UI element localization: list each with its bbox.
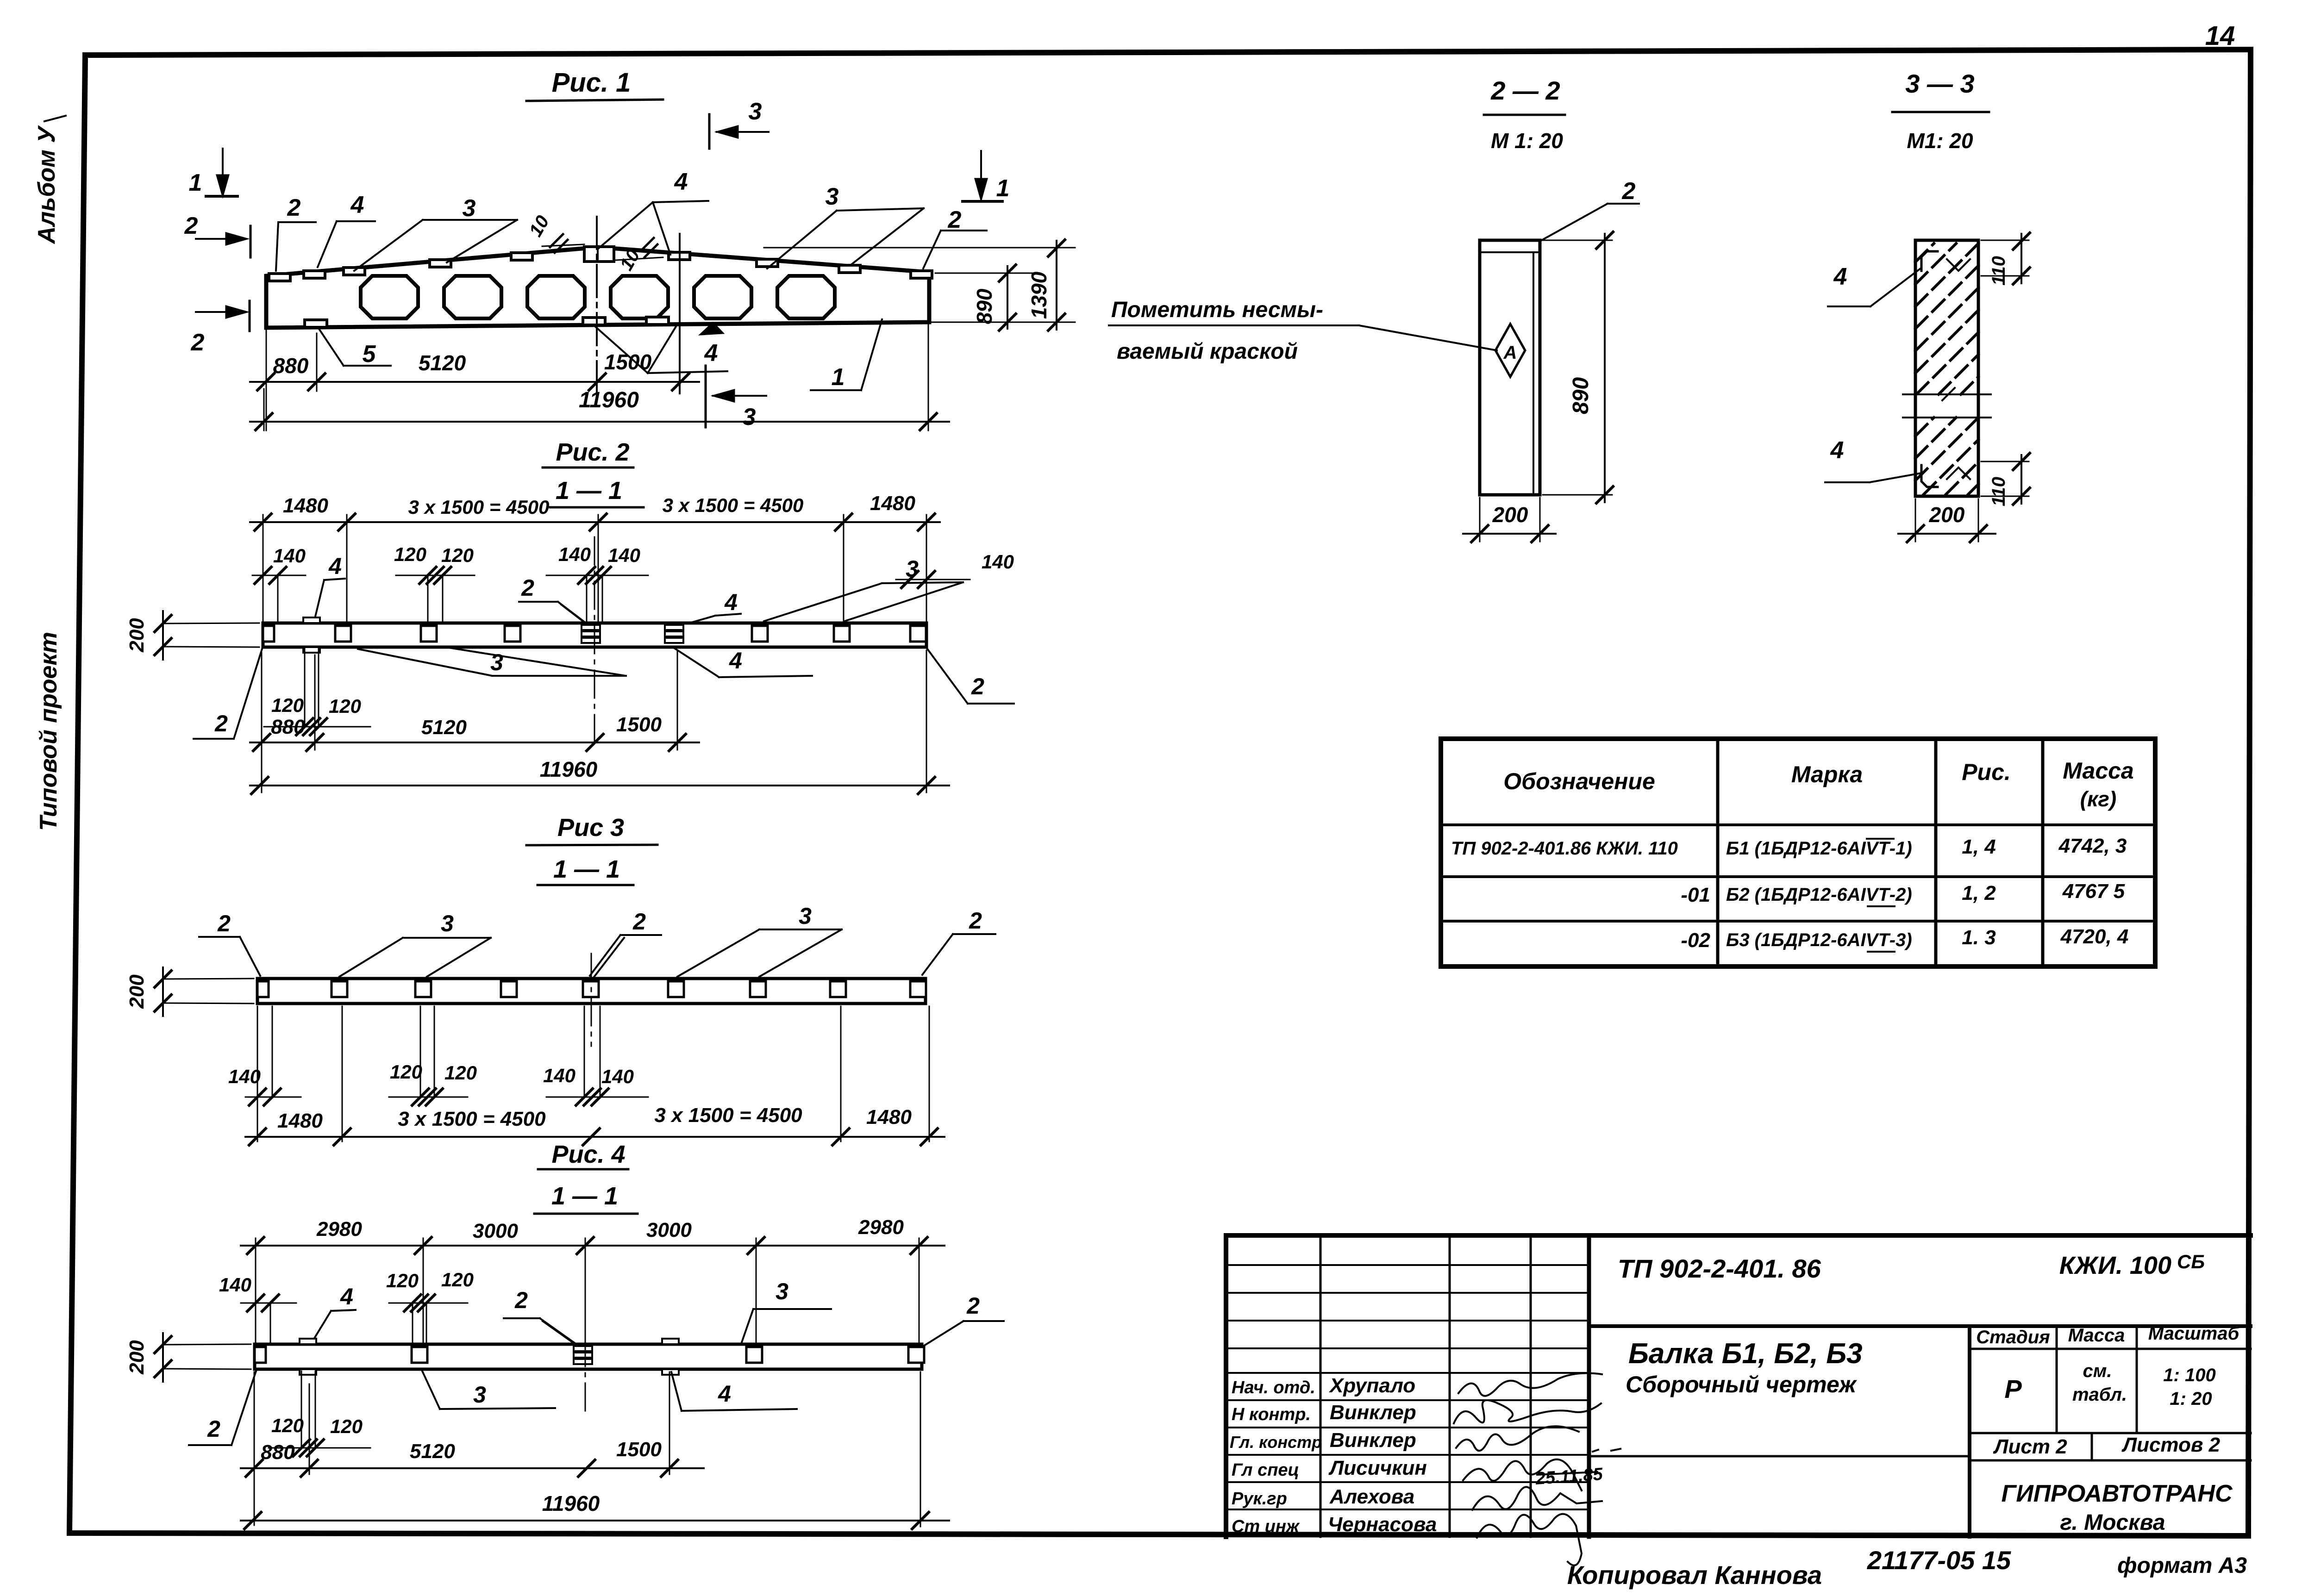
svg-text:-01: -01 — [1681, 884, 1710, 906]
svg-text:4: 4 — [1830, 437, 1844, 464]
Рис.1 top plate 5 — [511, 253, 532, 260]
Рис.2 splice stack right — [665, 625, 683, 643]
Рис.3 dim 200 left — [125, 967, 254, 1016]
svg-text:21177-05 15: 21177-05 15 — [1867, 1546, 2011, 1575]
svg-text:4: 4 — [674, 168, 688, 195]
svg-text:1: 1 — [832, 364, 845, 391]
svg-text:200: 200 — [125, 1340, 148, 1375]
Рис.4 centreline — [585, 1250, 586, 1412]
svg-text:СБ: СБ — [2177, 1251, 2205, 1272]
Рис.2 end plate right — [910, 626, 926, 642]
svg-text:200: 200 — [1492, 503, 1528, 527]
Рис.1 section mark 2 upper-left — [184, 212, 250, 257]
svg-text:3 x 1500 = 4500: 3 x 1500 = 4500 — [408, 496, 550, 518]
Рис.1 title — [526, 68, 663, 101]
Рис.1 top plate 9 — [911, 271, 932, 278]
svg-text:140: 140 — [273, 545, 306, 567]
svg-text:Гл. констр: Гл. констр — [1230, 1433, 1322, 1452]
Рис.3 plate 1 — [332, 981, 347, 997]
Рис.1 beam outline — [266, 247, 929, 328]
Рис.1 centreline — [596, 217, 598, 393]
Рис.1 leader 3 parallelogram left — [354, 195, 517, 271]
Рис.4 dim 880-5120-1500 — [241, 1372, 704, 1525]
svg-text:2: 2 — [966, 1293, 980, 1319]
Рис.1 top plate 2 — [304, 271, 325, 278]
svg-text:Пометить несмы-: Пометить несмы- — [1111, 298, 1323, 322]
Рис.1 hole 3 — [527, 276, 585, 318]
signatures — [1454, 1373, 1602, 1565]
svg-text:1: 1 — [189, 169, 202, 196]
Рис.4 leader 2 bottom-left — [189, 1371, 256, 1445]
Рис.1 leader 4 top-left — [318, 192, 375, 267]
svg-text:200: 200 — [125, 974, 148, 1009]
svg-text:120: 120 — [271, 1415, 304, 1436]
svg-text:1, 2: 1, 2 — [1962, 882, 1996, 904]
table header Масса кг — [2063, 758, 2134, 811]
svg-text:140: 140 — [543, 1065, 575, 1086]
section 3-3 leader 4 bottom — [1825, 437, 1921, 482]
section 2-2 leader 2 — [1540, 178, 1639, 241]
svg-text:3 x 1500 = 4500: 3 x 1500 = 4500 — [654, 1104, 802, 1127]
svg-text:Рис. 1: Рис. 1 — [552, 68, 631, 98]
svg-text:140: 140 — [228, 1066, 261, 1087]
svg-text:120: 120 — [330, 1415, 363, 1437]
svg-text:2: 2 — [287, 194, 301, 221]
svg-text:Лисичкин: Лисичкин — [1328, 1457, 1427, 1479]
svg-text:ГИПРОАВТОТРАНС: ГИПРОАВТОТРАНС — [2001, 1480, 2233, 1507]
Рис.3 plate 3 — [501, 981, 517, 997]
svg-text:М 1: 20: М 1: 20 — [1491, 129, 1563, 153]
svg-text:3 x 1500 = 4500: 3 x 1500 = 4500 — [663, 494, 804, 516]
Рис.4 plate pair item4 right — [662, 1339, 679, 1375]
section 3-3 body with hatching — [1915, 240, 1978, 496]
Рис.2 plate 5 — [834, 626, 850, 642]
svg-text:2: 2 — [521, 575, 534, 601]
Рис.4 small dim 140 left — [219, 1274, 296, 1344]
Рис.4 title — [534, 1141, 638, 1214]
svg-text:3: 3 — [826, 183, 839, 210]
Рис.1 dim 11960 — [250, 324, 949, 430]
svg-text:3: 3 — [490, 649, 503, 675]
section 3-3 anchor loop bottom — [1921, 465, 1970, 487]
svg-text:Обозначение: Обозначение — [1503, 768, 1655, 794]
svg-text:5: 5 — [363, 341, 376, 368]
title block sheet row — [1970, 1433, 2251, 1460]
svg-text:120: 120 — [441, 544, 474, 566]
Рис.2 leader 2 bottom-left — [194, 649, 262, 739]
Рис.3 dim 1480-4500-4500-1480 — [245, 1006, 945, 1145]
Рис.2 small dim 120-120 upper — [394, 543, 475, 623]
Рис.1 apex plate — [584, 247, 614, 262]
svg-text:1480: 1480 — [283, 494, 328, 517]
svg-text:Ст инж: Ст инж — [1232, 1517, 1300, 1536]
svg-text:Рис 3: Рис 3 — [557, 814, 624, 842]
svg-text:4742, 3: 4742, 3 — [2058, 835, 2127, 857]
svg-text:2: 2 — [214, 711, 228, 736]
svg-text:М1: 20: М1: 20 — [1907, 129, 1973, 153]
section 2-2 body — [1480, 240, 1540, 495]
title block staff grid — [1226, 1235, 1589, 1537]
Рис.1 extension line 1500 right — [679, 234, 681, 393]
svg-text:Рис.: Рис. — [1962, 759, 2011, 785]
Рис.3 small dim 140 left — [228, 1006, 301, 1141]
Рис.1 top plate 6 — [669, 252, 690, 260]
svg-text:1. 3: 1. 3 — [1962, 926, 1995, 949]
svg-text:140: 140 — [219, 1274, 251, 1296]
Рис.1 top plate 3 — [344, 268, 365, 275]
Рис.1 leader 4 bottom-middle — [595, 325, 727, 373]
svg-text:890: 890 — [972, 288, 996, 324]
svg-text:120: 120 — [386, 1270, 419, 1291]
Рис.4 leader 4 upper — [313, 1284, 356, 1340]
svg-text:формат А3: формат А3 — [2117, 1553, 2247, 1578]
svg-text:120: 120 — [394, 543, 426, 565]
svg-text:2: 2 — [184, 212, 198, 239]
svg-text:120: 120 — [444, 1062, 477, 1084]
Рис.4 small dim 120-120 upper — [386, 1269, 474, 1344]
svg-text:4: 4 — [340, 1284, 353, 1309]
Рис.2 small dim 120-120 lower — [264, 648, 370, 735]
svg-text:880: 880 — [273, 354, 309, 378]
svg-text:3: 3 — [776, 1278, 788, 1304]
svg-text:ТП 902-2-401.86 КЖИ. 110: ТП 902-2-401.86 КЖИ. 110 — [1451, 838, 1678, 859]
Рис.4 dim 2980-3000-3000-2980 — [241, 1216, 945, 1344]
svg-text:200: 200 — [125, 618, 148, 653]
svg-text:Листов 2: Листов 2 — [2121, 1434, 2221, 1456]
Рис.2 dim 880-5120-1500 — [250, 650, 699, 792]
Рис.2 leader 2 bottom-right — [927, 649, 1014, 704]
Рис.1 hole 6 — [777, 276, 835, 318]
title block code row — [1589, 1251, 2251, 1326]
section 3-3 title — [1892, 69, 1989, 153]
svg-text:3: 3 — [743, 404, 756, 430]
svg-text:1480: 1480 — [866, 1106, 912, 1128]
svg-text:Винклер: Винклер — [1330, 1401, 1416, 1424]
svg-text:Б3 (1БДР12-6АIVТ-3): Б3 (1БДР12-6АIVТ-3) — [1726, 930, 1912, 950]
svg-text:ваемый краской: ваемый краской — [1117, 339, 1298, 364]
Рис.2 small dim 140 left — [252, 545, 306, 623]
Рис.2 splice stack left — [582, 625, 600, 643]
section 3-3 leader 4 top — [1828, 263, 1920, 306]
Рис.3 leader 2 right — [922, 908, 995, 975]
Рис.4 leader 3 upper — [742, 1278, 831, 1342]
Рис.3 small dim 140-140 — [543, 1006, 648, 1105]
svg-text:4: 4 — [328, 553, 342, 579]
Рис.2 dim 1480-4500-4500-1480 — [250, 492, 940, 623]
Рис.1 leader 2 top-right — [923, 206, 987, 268]
Рис.1 top plate 1 — [269, 274, 290, 281]
svg-text:11960: 11960 — [540, 757, 598, 781]
Рис.2 leader 3 parallelogram lower — [358, 648, 626, 676]
svg-text:5120: 5120 — [419, 351, 466, 375]
Рис.1 section mark 1 right — [963, 151, 1009, 202]
svg-text:1500: 1500 — [616, 1438, 662, 1461]
Рис.1 section mark 3 top — [709, 98, 769, 149]
Рис.4 dim 11960 — [241, 1372, 949, 1529]
Рис.3 leader 3 parallelogram right — [677, 903, 842, 977]
svg-text:2: 2 — [969, 908, 982, 934]
Рис.3 end plate left — [257, 981, 269, 997]
section 2-2 title — [1484, 76, 1565, 153]
Рис.1 weld mark triangle — [700, 323, 723, 335]
svg-text:3: 3 — [749, 98, 762, 125]
Рис.1 top plate 7 — [757, 259, 778, 267]
svg-text:200: 200 — [1929, 503, 1965, 527]
svg-text:Хрупало: Хрупало — [1328, 1374, 1415, 1397]
Рис.1 leader 1 bottom-right — [811, 319, 882, 391]
svg-text:Н контр.: Н контр. — [1232, 1405, 1311, 1424]
svg-text:2 — 2: 2 — 2 — [1490, 76, 1560, 105]
specification table — [1441, 739, 2155, 966]
section 3-3 dim 110 bottom — [1981, 453, 2030, 506]
Рис.4 leader 3 lower — [422, 1371, 555, 1409]
Рис.1 hole 5 — [694, 276, 751, 318]
svg-text:2: 2 — [217, 910, 231, 936]
Рис.1 leader 5 bottom-left — [319, 330, 391, 368]
title block staff names — [1230, 1374, 1437, 1536]
svg-text:Алехова: Алехова — [1329, 1485, 1414, 1508]
Рис.2 leader 4 lower — [674, 648, 812, 677]
svg-text:4: 4 — [704, 340, 718, 367]
svg-text:120: 120 — [441, 1269, 474, 1291]
Рис.4 splice stack — [574, 1346, 592, 1364]
svg-text:890: 890 — [1569, 377, 1593, 414]
Рис.1 section mark 2 lower-left — [191, 301, 250, 356]
page number 14 — [2205, 21, 2235, 51]
svg-text:2980: 2980 — [316, 1218, 362, 1241]
svg-text:Типовой проект: Типовой проект — [35, 632, 62, 831]
svg-text:Масштаб: Масштаб — [2148, 1323, 2240, 1344]
svg-text:КЖИ. 100: КЖИ. 100 — [2059, 1252, 2171, 1279]
svg-text:3 — 3: 3 — 3 — [1905, 69, 1974, 98]
svg-text:3: 3 — [473, 1382, 486, 1408]
svg-text:Копировал Каннова: Копировал Каннова — [1567, 1560, 1822, 1590]
section 2-2 dim 200 — [1463, 498, 1556, 542]
title block organization — [2001, 1480, 2233, 1535]
Рис.2 small dim 140 right — [896, 551, 1014, 623]
Рис.2 end plate left — [263, 626, 274, 642]
svg-text:2: 2 — [971, 673, 984, 699]
Рис.4 leader 2 upper — [504, 1287, 584, 1351]
table row2 — [1681, 880, 2125, 906]
svg-text:1 — 1: 1 — 1 — [556, 477, 622, 505]
table row1 — [1451, 835, 2127, 859]
Рис.1 leader 2 top-left — [276, 194, 316, 271]
svg-text:А: А — [1503, 343, 1517, 363]
Рис.1 section mark 3 bottom — [706, 366, 766, 430]
Рис.1 section mark 1 left — [189, 149, 238, 196]
Рис.2 plate 2 — [421, 626, 437, 642]
margin text Альбом V — [33, 116, 66, 244]
title block name Балка — [1589, 1338, 1970, 1456]
svg-text:4767 5: 4767 5 — [2062, 880, 2125, 903]
section 3-3 break lines — [1903, 388, 1991, 418]
table row3 — [1681, 925, 2128, 952]
Рис.1 leader 3 parallelogram right — [767, 183, 924, 268]
svg-text:Стадия: Стадия — [1976, 1327, 2050, 1347]
svg-text:3000: 3000 — [646, 1219, 692, 1241]
Рис.3 leader 3 parallelogram left — [339, 910, 491, 977]
svg-text:110: 110 — [1989, 477, 2009, 506]
svg-text:880: 880 — [261, 1441, 295, 1464]
svg-text:3000: 3000 — [473, 1220, 518, 1242]
svg-text:4: 4 — [729, 648, 742, 673]
svg-text:1: 1 — [996, 175, 1010, 202]
svg-text:1 — 1: 1 — 1 — [551, 1182, 618, 1210]
Рис.3 plate 2 — [415, 981, 431, 997]
svg-text:140: 140 — [601, 1066, 634, 1087]
svg-text:1, 4: 1, 4 — [1962, 835, 1995, 858]
svg-text:4: 4 — [350, 192, 364, 218]
svg-text:Масса: Масса — [2068, 1325, 2125, 1346]
Рис.4 dim 200 left — [125, 1333, 251, 1382]
svg-text:Балка Б1, Б2, Б3: Балка Б1, Б2, Б3 — [1628, 1338, 1863, 1370]
Рис.1 hole 4 — [611, 276, 668, 318]
note пометить несмываемой краской — [1109, 298, 1497, 364]
svg-text:см.: см. — [2083, 1361, 2112, 1381]
Рис.1 top plate 8 — [839, 265, 860, 273]
title block outline — [1226, 1235, 2251, 1537]
svg-text:Масса: Масса — [2063, 758, 2134, 784]
Рис.3 end plate right — [910, 981, 926, 997]
svg-text:2: 2 — [948, 206, 962, 233]
svg-text:г. Москва: г. Москва — [2060, 1510, 2165, 1535]
svg-text:Рис. 4: Рис. 4 — [551, 1141, 625, 1168]
Рис.1 leader 4 apex — [598, 168, 708, 255]
svg-text:(кг): (кг) — [2080, 787, 2117, 811]
Рис.2 plate pair item4 — [303, 617, 320, 653]
svg-text:1480: 1480 — [870, 492, 915, 515]
svg-text:120: 120 — [271, 694, 304, 716]
svg-text:140: 140 — [608, 544, 640, 566]
svg-text:1390: 1390 — [1027, 271, 1051, 319]
svg-text:880: 880 — [271, 716, 305, 738]
Рис.2 plate 4 — [752, 626, 768, 642]
title block stage columns — [1970, 1323, 2251, 1537]
svg-text:Б1 (1БДР12-6АIVТ-1): Б1 (1БДР12-6АIVТ-1) — [1726, 838, 1912, 859]
Рис.3 small dim 120-120 — [389, 1006, 477, 1105]
svg-text:3: 3 — [463, 195, 476, 222]
Рис.1 bottom plate 1 — [305, 320, 327, 327]
svg-text:Винклер: Винклер — [1330, 1429, 1416, 1452]
svg-text:ТП 902-2-401. 86: ТП 902-2-401. 86 — [1618, 1254, 1821, 1283]
margin text Типовой проект — [35, 632, 62, 831]
svg-text:14: 14 — [2205, 21, 2235, 51]
svg-text:120: 120 — [390, 1061, 422, 1083]
Рис.3 bar — [257, 979, 926, 1004]
svg-text:1500: 1500 — [616, 713, 662, 736]
svg-text:120: 120 — [329, 695, 361, 717]
svg-text:140: 140 — [982, 551, 1014, 573]
section 2-2 dim 890 — [1543, 232, 1613, 503]
Рис.1 dim 890 right — [935, 265, 1032, 330]
Рис.1 hole 1 — [361, 276, 418, 318]
Рис.4 plate 2 — [746, 1347, 762, 1363]
Рис.3 leader 2 left — [199, 910, 260, 976]
svg-text:Р: Р — [2004, 1374, 2022, 1403]
svg-text:1 — 1: 1 — 1 — [553, 855, 620, 883]
svg-text:Альбом У: Альбом У — [33, 125, 60, 245]
Рис.2 small dim 140-140 centre — [546, 543, 648, 623]
svg-text:Лист 2: Лист 2 — [1993, 1435, 2067, 1458]
Рис.2 leader 4 left — [315, 553, 345, 618]
Рис.4 plate pair item4 left — [300, 1339, 316, 1375]
svg-text:1500: 1500 — [604, 350, 652, 374]
Рис.2 centreline — [594, 537, 595, 749]
section 3-3 dim 110 top — [1981, 233, 2030, 286]
Рис.1 bottom plate 3 — [646, 317, 669, 324]
svg-text:3: 3 — [799, 903, 812, 929]
svg-text:2: 2 — [207, 1416, 220, 1442]
svg-text:4: 4 — [724, 589, 738, 615]
Рис.1 slope mark 10 right — [616, 238, 663, 274]
svg-text:3: 3 — [441, 910, 454, 936]
Рис.3 plate 6 — [750, 981, 766, 997]
svg-text:2980: 2980 — [858, 1216, 904, 1239]
Рис.2 bar — [263, 623, 926, 647]
Рис.4 plate 1 — [412, 1347, 427, 1363]
Рис.2 leader 2 centre — [519, 575, 589, 626]
svg-text:4: 4 — [718, 1381, 731, 1407]
svg-text:4: 4 — [1833, 263, 1847, 290]
Рис.2 dim 11960 — [250, 650, 949, 794]
svg-text:1480: 1480 — [277, 1110, 323, 1132]
Рис.2 title — [543, 438, 644, 507]
Рис.1 hole 2 — [444, 276, 501, 318]
svg-text:-02: -02 — [1681, 929, 1710, 952]
Рис.2 plate 1 — [335, 626, 351, 642]
svg-text:Гл спец: Гл спец — [1232, 1460, 1299, 1480]
svg-text:Сборочный чертеж: Сборочный чертеж — [1626, 1372, 1857, 1397]
svg-text:Чернасова: Чернасова — [1328, 1513, 1437, 1536]
Рис.2 leader 3 parallelogram right — [764, 556, 963, 621]
svg-text:Марка: Марка — [1791, 761, 1863, 787]
svg-text:3 x 1500 = 4500: 3 x 1500 = 4500 — [398, 1108, 546, 1130]
section 3-3 dim 200 — [1898, 499, 1995, 542]
Рис.4 small dim 120-120 lower — [269, 1371, 370, 1456]
section 2-2 quality mark diamond А — [1495, 324, 1525, 377]
svg-text:2: 2 — [632, 909, 646, 935]
svg-text:табл.: табл. — [2072, 1384, 2127, 1405]
Рис.3 title — [526, 814, 657, 885]
Рис.2 dim 200 left — [125, 611, 259, 660]
Рис.3 leader 2 centre — [590, 909, 661, 978]
Рис.3 plate 4 — [583, 981, 599, 997]
Рис.4 leader 4 lower — [671, 1372, 797, 1411]
svg-text:Б2 (1БДР12-6АIVТ-2): Б2 (1БДР12-6АIVТ-2) — [1726, 885, 1912, 905]
Рис.4 end plate left — [255, 1347, 266, 1363]
svg-text:140: 140 — [558, 543, 591, 565]
svg-text:4720, 4: 4720, 4 — [2060, 925, 2129, 948]
Рис.2 leader 4 right — [680, 589, 741, 626]
Рис.3 centreline — [591, 954, 592, 1046]
Рис.1 dim 1390 right — [764, 240, 1075, 330]
svg-text:11960: 11960 — [579, 388, 639, 412]
Рис.4 leader 2 upper-right — [920, 1293, 1004, 1348]
Рис.4 bar — [255, 1344, 922, 1369]
Рис.1 dim 880-5120-1500 — [250, 330, 699, 430]
svg-text:110: 110 — [1989, 256, 2009, 286]
Рис.3 plate 5 — [668, 981, 684, 997]
svg-text:5120: 5120 — [421, 716, 467, 739]
svg-text:1: 20: 1: 20 — [2170, 1389, 2212, 1409]
svg-text:2: 2 — [191, 329, 205, 356]
svg-text:Рис. 2: Рис. 2 — [556, 438, 629, 466]
Рис.1 bottom plate 2 — [583, 318, 605, 325]
Рис.1 top plate 4 — [430, 260, 451, 267]
svg-text:5120: 5120 — [410, 1440, 455, 1463]
Рис.1 slope mark 10 left — [525, 212, 584, 253]
